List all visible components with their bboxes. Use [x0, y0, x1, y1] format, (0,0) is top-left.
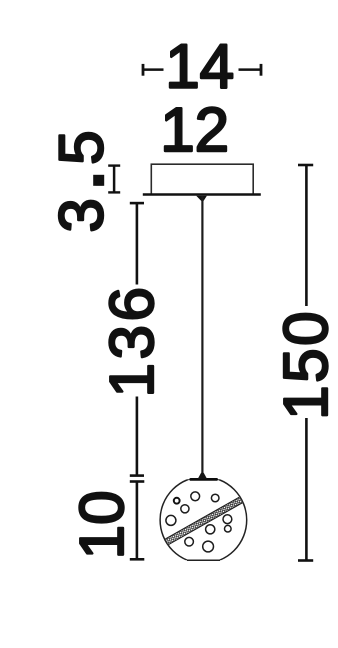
- dimension 10 line: [136, 482, 139, 560]
- dimension 14 right tick: [260, 64, 263, 76]
- bubble 3: [211, 494, 219, 502]
- dimension 136 lower line: [136, 397, 139, 476]
- decorative band across sphere: [159, 495, 246, 548]
- dimension 3.5 line: [113, 166, 116, 193]
- dimension 3.5 top tick: [108, 164, 120, 166]
- glass sphere outline: [160, 477, 247, 564]
- bubble 6: [223, 515, 232, 524]
- svg-text:12: 12: [160, 96, 229, 165]
- bubble 2: [191, 492, 200, 501]
- cord grip cone: [196, 196, 207, 201]
- bubble 1 (small bold): [174, 498, 180, 504]
- bubble 7: [206, 525, 215, 534]
- svg-text:150: 150: [272, 309, 338, 420]
- wire flare at cap: [198, 473, 207, 479]
- dimension 136 top tick: [130, 202, 144, 205]
- dimension 150 bottom tick: [298, 559, 313, 562]
- sphere flat bottom chord: [187, 559, 220, 561]
- dimension 14 left line segment: [143, 68, 164, 71]
- dimension 150 upper line: [305, 165, 308, 306]
- dimension 10 bottom tick: [130, 558, 145, 561]
- bubble 10: [203, 541, 214, 552]
- sphere top cap bar: [191, 478, 217, 481]
- dimension 3.5 bottom tick: [108, 191, 120, 193]
- dimension 150 lower line: [305, 418, 308, 561]
- dimension 136 bottom tick: [130, 474, 144, 477]
- svg-text:136: 136: [98, 284, 167, 398]
- svg-text:10: 10: [68, 490, 137, 559]
- bubble 9: [185, 537, 194, 546]
- bubble 5: [166, 515, 176, 525]
- dimension 10 top tick: [130, 480, 145, 483]
- suspension wire: [201, 196, 203, 480]
- ceiling baseline: [143, 193, 261, 195]
- dimension 150 top tick: [298, 164, 313, 167]
- svg-text:14: 14: [165, 32, 234, 101]
- dimension 136 upper line: [136, 203, 139, 284]
- bubble 4: [181, 505, 189, 513]
- dimension 14 right line segment: [239, 68, 262, 71]
- canopy rectangle: [151, 164, 253, 194]
- svg-text:3.5: 3.5: [48, 122, 117, 232]
- bubble 8: [225, 525, 232, 532]
- dimension 14 left tick: [142, 64, 145, 76]
